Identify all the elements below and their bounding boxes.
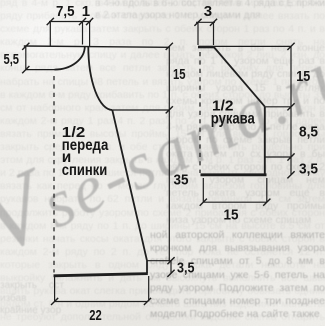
sleeve right dimension tick top — [287, 43, 294, 50]
top dimension tick right — [86, 18, 93, 25]
top dimension tick left — [47, 18, 54, 25]
right dimension line 15 / 35 — [168, 46, 170, 261]
right dimension tick at ribbing top — [167, 257, 174, 264]
right dimension short line 3,5 — [170, 261, 172, 274]
dimension line 5,5 — [25, 46, 27, 69]
dimension line 22 — [55, 301, 148, 303]
svg-text:спинки: спинки — [62, 162, 108, 179]
left piece: ribbing right edge — [146, 261, 148, 274]
sleeve: centre fold dashed line — [199, 52, 201, 173]
sleeve: top dimension extension left — [197, 22, 199, 45]
sleeve: right dimension line 15 / 8,5 / 3,5 — [290, 46, 292, 174]
medium bleed text, right column between pieces and right margin — [166, 42, 325, 232]
svg-text:15: 15 — [224, 207, 239, 224]
top dimension extension right — [89, 22, 91, 47]
sleeve right dimension tick hem — [287, 171, 294, 178]
left piece: extension below bottom right — [148, 276, 150, 302]
left piece: centre fold dashed line — [53, 76, 55, 273]
left piece: extension below bottom left — [54, 277, 56, 302]
left piece: side seam — [112, 110, 147, 261]
sleeve: right edge — [264, 107, 266, 175]
sleeve: bottom extension left — [202, 178, 204, 202]
sleeve: top dimension extension right — [213, 22, 215, 45]
svg-text:рукава: рукава — [211, 111, 255, 128]
sleeve: bottom dimension line 15 — [203, 201, 266, 203]
svg-text:15: 15 — [296, 68, 310, 85]
sleeve: top edge — [198, 46, 214, 49]
sleeve: cap-bottom extension line — [265, 106, 291, 108]
sleeve bottom dimension tick right — [263, 199, 270, 206]
svg-text:5,5: 5,5 — [4, 51, 20, 68]
svg-text:3,5: 3,5 — [177, 259, 195, 276]
sleeve: top dimension tick left — [194, 19, 201, 26]
sleeve: bottom extension right — [266, 178, 268, 202]
svg-text:22: 22 — [89, 307, 102, 324]
svg-text:35: 35 — [174, 172, 189, 189]
dimension 22 tick left — [51, 298, 58, 305]
sleeve: bottom edge (cast-on) — [201, 173, 267, 176]
darker bleed text, top strip — [95, 0, 325, 22]
sleeve right dimension tick cap bottom — [287, 103, 294, 110]
sleeve right dimension tick cuff top — [287, 153, 294, 160]
dimension 5,5 tick top — [22, 43, 29, 50]
left piece: ribbing-top extension line — [147, 260, 172, 262]
darker bleed text, lower right region — [150, 229, 325, 326]
top dimension extension middle — [82, 22, 84, 45]
svg-text:3,5: 3,5 — [299, 161, 318, 178]
light bleed text, bottom left — [0, 280, 64, 326]
left piece: armhole curve — [88, 46, 112, 110]
top dimension tick middle — [79, 18, 86, 25]
right dimension tick at shoulder — [166, 43, 173, 50]
svg-text:15: 15 — [173, 66, 186, 83]
left piece: shoulder/top extension line — [24, 46, 170, 47]
svg-text:1: 1 — [82, 3, 90, 20]
sleeve: cap slant edge — [214, 47, 265, 107]
right dimension tick at hem — [167, 270, 174, 277]
sleeve: top dimension line 3 — [196, 21, 215, 23]
left piece: neck-bottom line — [26, 69, 55, 71]
sleeve: cuff-top extension line — [265, 156, 291, 158]
svg-text:3: 3 — [204, 3, 212, 20]
left piece: neckline curve — [55, 46, 85, 69]
top dimension line 7,5 / 1 — [49, 21, 91, 23]
sleeve bottom dimension tick left — [200, 199, 207, 206]
dimension 22 tick right — [144, 298, 151, 305]
dimension 5,5 tick bottom — [22, 66, 29, 73]
left piece: bottom edge (cast-on) — [54, 274, 148, 276]
left piece: armhole-bottom extension line — [112, 109, 169, 111]
sleeve: top dimension tick right — [210, 19, 217, 26]
svg-text:7,5: 7,5 — [56, 3, 75, 20]
right dimension tick at armhole — [166, 106, 173, 113]
svg-text:8,5: 8,5 — [299, 123, 318, 140]
top dimension extension left — [49, 22, 51, 47]
sleeve: cap-top extension line — [214, 45, 291, 47]
